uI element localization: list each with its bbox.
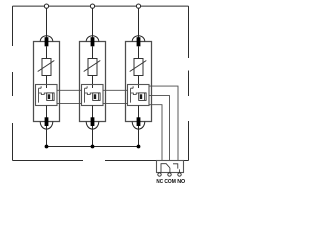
- indicator fill: [94, 94, 96, 99]
- disconnector box: [36, 85, 58, 106]
- SPD module 3: [126, 36, 152, 147]
- top plug pin: [137, 37, 141, 46]
- svg-text:NC: NC: [156, 179, 163, 185]
- SPD module 1: [34, 36, 60, 147]
- wire terminal2 to module2: [92, 8, 94, 38]
- SPD module 2: [80, 36, 106, 147]
- inter-module link wire B (m2-m3): [103, 90, 128, 103]
- enclosure bottom border (dashed, interrupted by FM box): [13, 160, 189, 162]
- FM remote contact box: [157, 161, 184, 173]
- junction node 2: [91, 145, 95, 149]
- bottom plug pin: [45, 117, 49, 126]
- varistor diagonal: [38, 61, 55, 72]
- bottom plug pin: [91, 117, 95, 126]
- terminal circle 2: [90, 4, 94, 8]
- top plug arc: [132, 36, 145, 42]
- FM signal wire 1 (top) to contact box: [149, 86, 178, 160]
- wire to bottom bus: [92, 126, 94, 147]
- enclosure top border: [13, 5, 189, 7]
- enclosure left border (dashed): [12, 6, 14, 160]
- changeover contact NC leg: [161, 164, 170, 173]
- wire to bottom bus: [138, 126, 140, 147]
- top plug pin: [45, 37, 49, 46]
- wire varistor to disconnector box: [92, 76, 94, 89]
- COM terminal circle: [168, 173, 171, 176]
- bottom bus: [47, 146, 139, 148]
- terminal circle 3: [136, 4, 140, 8]
- FM signal wire 3 (bottom) to contact box: [149, 105, 162, 161]
- bottom plug arc: [132, 122, 145, 130]
- wire box to bottom plug: [46, 106, 48, 118]
- changeover contact COM leg: [169, 168, 171, 173]
- top plug arc: [86, 36, 99, 42]
- wire terminal1 to module1: [46, 8, 48, 38]
- indicator divider: [52, 93, 54, 101]
- bottom plug arc: [86, 122, 99, 130]
- wire pin to varistor: [92, 46, 94, 58]
- changeover contact NO leg: [173, 164, 179, 173]
- indicator rect: [93, 93, 100, 101]
- module box: [80, 42, 106, 122]
- switch blade: [39, 86, 42, 102]
- wire varistor to disconnector box: [138, 76, 140, 89]
- NC terminal circle: [158, 173, 161, 176]
- varistor rect: [42, 59, 51, 76]
- actuator staircase: [39, 93, 47, 95]
- svg-text:COM: COM: [164, 179, 176, 185]
- NO terminal circle: [178, 173, 181, 176]
- indicator fill: [140, 94, 142, 99]
- wire pin to varistor: [46, 46, 48, 58]
- module box: [34, 42, 60, 122]
- disconnector box: [82, 85, 104, 106]
- FM signal wire 2 (middle) to contact box: [149, 96, 170, 161]
- switch blade: [131, 86, 134, 102]
- varistor rect: [88, 59, 97, 76]
- indicator rect: [139, 93, 146, 101]
- indicator fill: [48, 94, 50, 99]
- wire terminal3 to module3: [138, 8, 140, 38]
- junction node 1: [45, 145, 49, 149]
- wire box to bottom plug: [138, 106, 140, 118]
- wire to bottom bus: [46, 126, 48, 147]
- varistor rect: [134, 59, 143, 76]
- indicator divider: [144, 93, 146, 101]
- switch blade: [85, 86, 88, 102]
- module box: [126, 42, 152, 122]
- indicator rect: [47, 93, 54, 101]
- indicator divider: [98, 93, 100, 101]
- actuator staircase: [85, 93, 93, 95]
- wire varistor to disconnector box: [46, 76, 48, 89]
- varistor diagonal: [130, 61, 147, 72]
- enclosure right border (dashed): [188, 6, 190, 160]
- junction node 3: [137, 145, 141, 149]
- wire pin to varistor: [138, 46, 140, 58]
- bottom plug pin: [137, 117, 141, 126]
- wire box to bottom plug: [92, 106, 94, 118]
- top plug pin: [91, 37, 95, 46]
- svg-text:NO: NO: [177, 179, 185, 185]
- bottom plug arc: [40, 122, 53, 130]
- terminal circle 1: [44, 4, 48, 8]
- top plug arc: [40, 36, 53, 42]
- varistor diagonal: [84, 61, 101, 72]
- disconnector box: [128, 85, 150, 106]
- actuator staircase: [131, 93, 139, 95]
- inter-module link wire A (m1-m2): [57, 90, 82, 103]
